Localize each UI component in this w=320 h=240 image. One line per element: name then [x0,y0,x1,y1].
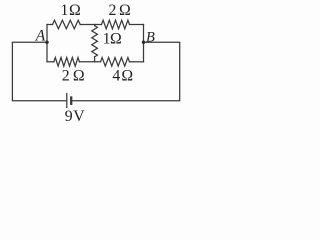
svg-text:Ω: Ω [110,30,122,47]
svg-text:Ω: Ω [73,67,85,84]
svg-text:4: 4 [112,67,120,84]
svg-text:Ω: Ω [69,2,81,19]
svg-text:9: 9 [65,108,73,125]
svg-text:1: 1 [61,2,69,19]
svg-text:V: V [73,108,85,125]
svg-text:2: 2 [109,2,117,19]
svg-text:Ω: Ω [119,2,131,19]
svg-text:B: B [146,29,155,45]
svg-text:A: A [35,28,46,45]
svg-text:2: 2 [62,67,70,84]
svg-text:Ω: Ω [121,67,133,84]
